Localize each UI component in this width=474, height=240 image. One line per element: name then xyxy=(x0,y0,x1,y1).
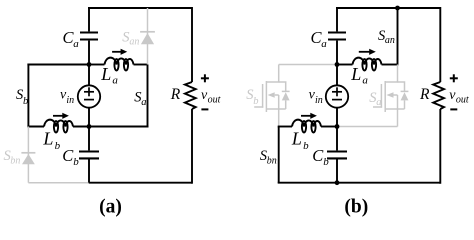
wire bottom horizontal black (b) xyxy=(278,126,337,128)
svg-text:bn: bn xyxy=(10,156,20,167)
svg-text:a: a xyxy=(321,38,327,50)
inductor Lb (a) xyxy=(44,120,73,133)
svg-text:L: L xyxy=(291,129,302,149)
node junction bottom (b) xyxy=(335,124,340,129)
switch sbn wire (b) xyxy=(278,127,280,183)
label vout (a) xyxy=(201,88,221,106)
svg-text:an: an xyxy=(385,35,395,46)
wire right rail upper (a) xyxy=(191,7,193,82)
wire gray left horizontal (b) xyxy=(279,64,337,66)
arrow current Lb (b) xyxy=(301,113,317,119)
switch sb wire (a) xyxy=(27,64,29,127)
caption (a) xyxy=(99,197,122,218)
svg-text:bn: bn xyxy=(267,155,277,166)
svg-text:R: R xyxy=(419,86,430,103)
svg-text:a: a xyxy=(376,97,381,108)
label plus (a) xyxy=(201,74,209,82)
label plus (b) xyxy=(450,74,458,82)
svg-text:b: b xyxy=(303,140,309,152)
svg-text:a: a xyxy=(141,97,146,108)
svg-text:R: R xyxy=(170,86,181,103)
switch san wire (b) xyxy=(397,8,399,66)
svg-text:b: b xyxy=(73,156,79,168)
svg-text:out: out xyxy=(208,95,221,106)
svg-text:b: b xyxy=(55,140,61,152)
resistor R (b) xyxy=(433,82,444,109)
svg-text:(b): (b) xyxy=(344,197,368,218)
capacitor Ca (b) xyxy=(328,8,346,65)
svg-text:a: a xyxy=(73,38,79,50)
label san (a) xyxy=(122,30,139,48)
label La (a) xyxy=(100,64,118,87)
svg-text:L: L xyxy=(100,64,111,84)
wire right rail lower (b) xyxy=(439,109,441,184)
wire bottom rail (b) xyxy=(278,182,441,184)
svg-text:out: out xyxy=(456,95,469,106)
label sb (b) xyxy=(246,87,258,107)
resistor R (a) xyxy=(185,82,196,109)
inductor La (b) xyxy=(337,58,398,71)
arrow current La (a) xyxy=(112,49,127,55)
caption (b) xyxy=(344,197,368,218)
svg-text:(a): (a) xyxy=(99,197,122,218)
label R (a) xyxy=(170,86,181,103)
label Ca (a) xyxy=(63,28,80,50)
arrow current La (b) xyxy=(359,49,376,55)
inductor La (a) xyxy=(89,58,148,71)
wire right rail lower (a) xyxy=(191,109,193,184)
svg-text:b: b xyxy=(23,96,28,107)
wire bottom horizontal (a) xyxy=(27,126,148,128)
source vin (b) xyxy=(326,65,348,127)
wire bottom rail gray segment (a) xyxy=(28,182,89,184)
svg-text:an: an xyxy=(129,36,139,47)
label san (b) xyxy=(378,28,395,46)
label Cb (b) xyxy=(312,146,329,168)
node junction top (a) xyxy=(87,62,92,67)
label vin (b) xyxy=(309,88,323,107)
label sa (a) xyxy=(134,90,146,108)
label minus (a) xyxy=(201,108,208,110)
switch sa wire (a) xyxy=(147,65,149,127)
label La (b) xyxy=(350,64,368,87)
source vin (a) xyxy=(78,65,100,127)
arrow current Lb (a) xyxy=(53,113,69,119)
label Lb (b) xyxy=(291,129,309,152)
svg-text:L: L xyxy=(350,64,361,84)
wire bottom rail (a) xyxy=(88,182,192,184)
node top rail junction (b) xyxy=(395,6,400,11)
label Lb (a) xyxy=(42,129,60,152)
wire right rail upper (b) xyxy=(439,7,441,82)
label Ca (b) xyxy=(311,28,328,50)
diode sbn (a) xyxy=(21,127,35,183)
capacitor Cb (a) xyxy=(79,127,99,183)
inductor Lb (b) xyxy=(292,120,321,133)
svg-text:L: L xyxy=(42,129,53,149)
transistor sb (b) xyxy=(254,65,289,127)
label minus (b) xyxy=(450,108,457,110)
svg-text:in: in xyxy=(315,95,323,106)
capacitor Cb (b) xyxy=(327,127,347,183)
label sbn (a) xyxy=(4,148,21,167)
label R (b) xyxy=(419,86,430,103)
svg-text:b: b xyxy=(253,96,258,107)
wire left horizontal (a) xyxy=(27,64,89,66)
label sa (b) xyxy=(369,90,381,108)
svg-text:a: a xyxy=(112,75,118,87)
label sb (a) xyxy=(16,87,28,107)
capacitor Ca (a) xyxy=(80,8,98,65)
svg-text:in: in xyxy=(66,95,74,106)
node junction top (b) xyxy=(335,62,340,67)
node bottom rail junction (b) xyxy=(335,180,340,185)
label vout (b) xyxy=(449,88,469,106)
wire top rail (b) xyxy=(336,7,440,9)
transistor sa (b) xyxy=(373,65,408,127)
diode san (a) xyxy=(140,8,155,65)
label sbn (b) xyxy=(260,148,277,167)
label vin (a) xyxy=(60,88,74,107)
label Cb (a) xyxy=(62,146,79,168)
node junction bottom (a) xyxy=(87,124,92,129)
svg-text:a: a xyxy=(362,75,368,87)
wire gray bottom horizontal (b) xyxy=(337,126,398,128)
svg-text:b: b xyxy=(323,156,329,168)
wire top rail (a) xyxy=(88,7,192,9)
